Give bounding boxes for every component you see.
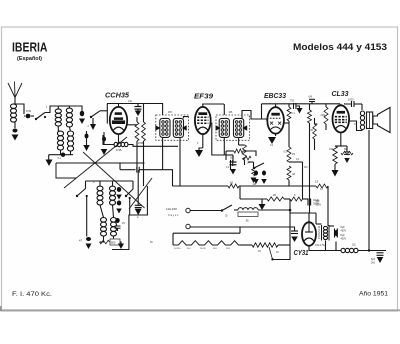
svg-text:IBERIA: IBERIA <box>12 40 48 55</box>
svg-text:13: 13 <box>315 180 319 184</box>
svg-text:POTENCIA: POTENCIA <box>317 225 321 239</box>
svg-text:(Español): (Español) <box>17 56 42 62</box>
svg-text:47Ω-17W: 47Ω-17W <box>315 245 326 247</box>
svg-text:Año 1951: Año 1951 <box>359 290 388 297</box>
svg-text:2kV: 2kV <box>371 262 376 265</box>
svg-text:750: 750 <box>290 100 295 103</box>
svg-text:800: 800 <box>111 241 116 245</box>
svg-text:150: 150 <box>329 148 334 151</box>
svg-text:ΩΩ: ΩΩ <box>352 244 356 247</box>
svg-text:450V: 450V <box>341 230 347 233</box>
svg-text:Modelos 444 y 4153: Modelos 444 y 4153 <box>293 42 387 52</box>
svg-text:1000: 1000 <box>348 99 354 102</box>
svg-text:CY31: CY31 <box>294 250 309 257</box>
svg-text:CL33: CL33 <box>332 91 349 98</box>
svg-text:100: 100 <box>128 100 133 103</box>
svg-text:6/9: 6/9 <box>309 96 313 99</box>
svg-text:400: 400 <box>309 129 314 132</box>
svg-text:0.95: 0.95 <box>116 148 122 152</box>
svg-text:15: 15 <box>292 152 296 156</box>
svg-text:.36: .36 <box>245 219 249 223</box>
svg-text:0.08: 0.08 <box>138 141 144 145</box>
svg-text:EF39: EF39 <box>194 94 213 101</box>
svg-text:15O: 15O <box>187 248 191 250</box>
svg-text:11O/2O: 11O/2O <box>174 248 182 250</box>
svg-text:62: 62 <box>230 181 234 185</box>
svg-text:42: 42 <box>292 172 296 176</box>
svg-text:15O/8: 15O/8 <box>200 248 207 250</box>
svg-text:110-150: 110-150 <box>166 207 177 211</box>
svg-text:1M: 1M <box>253 183 256 186</box>
svg-text:16O: 16O <box>213 248 217 250</box>
svg-text:1M: 1M <box>304 166 307 169</box>
svg-text:CCH35: CCH35 <box>105 92 129 99</box>
svg-text:350V: 350V <box>313 202 319 206</box>
svg-text:V a y c c: V a y c c <box>168 213 179 217</box>
svg-text:32μF: 32μF <box>313 198 319 202</box>
svg-text:19O: 19O <box>226 248 230 250</box>
svg-text:450V: 450V <box>341 238 347 241</box>
svg-text:2M2: 2M2 <box>321 114 326 117</box>
svg-text:F. I. 470 Kc.: F. I. 470 Kc. <box>12 291 52 298</box>
svg-text:EBC33: EBC33 <box>264 91 287 100</box>
svg-text:0.W: 0.W <box>26 109 31 113</box>
